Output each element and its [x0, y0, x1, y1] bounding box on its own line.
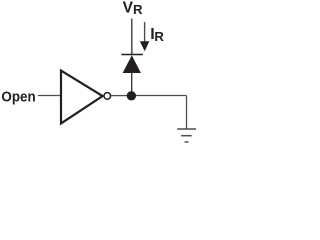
- node junction dot: [127, 91, 136, 100]
- svg-text:R: R: [154, 29, 164, 44]
- wire diode to node: [131, 73, 133, 93]
- ground: [177, 129, 196, 142]
- wire node to corner: [136, 95, 187, 97]
- wire down to ground: [186, 96, 188, 130]
- inverter output bubble: [104, 93, 111, 100]
- diode D1: [123, 55, 141, 73]
- svg-text:Open: Open: [1, 90, 35, 106]
- current arrow IR: [140, 22, 150, 51]
- label IR: [150, 26, 164, 44]
- wire VR lead: [131, 19, 133, 55]
- wire input: [38, 95, 60, 97]
- node VR label: [123, 0, 143, 17]
- svg-text:R: R: [133, 2, 143, 17]
- inverter U1: [61, 71, 103, 124]
- svg-text:V: V: [123, 0, 134, 16]
- diode D1 cathode bar: [121, 54, 143, 56]
- wire bubble to node: [111, 95, 127, 97]
